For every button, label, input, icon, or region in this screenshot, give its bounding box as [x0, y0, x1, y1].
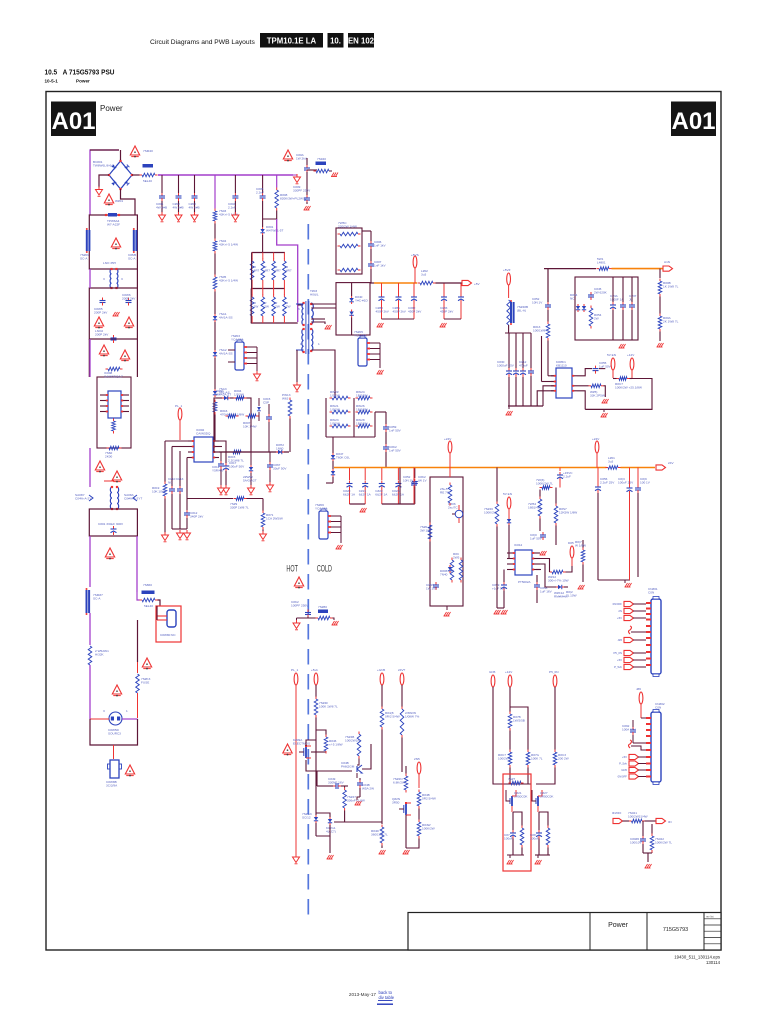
svg-text:450P 2kV: 450P 2kV [408, 309, 422, 313]
svg-text:1W/2/5B: 1W/2/5B [513, 718, 525, 722]
svg-text:100K/2W 7L: 100K/2W 7L [536, 481, 553, 485]
svg-text:100/10V: 100/10V [630, 840, 642, 844]
svg-text:3u3: 3u3 [608, 459, 613, 463]
svg-text:100uF: 100uF [504, 836, 513, 840]
svg-text:3: 3 [103, 277, 105, 281]
svg-text:6: 6 [298, 307, 300, 311]
svg-text:340P 2kV: 340P 2kV [190, 514, 204, 518]
svg-text:W#A2A-2T: W#A2A-2T [216, 392, 231, 396]
svg-text:2N5: 2N5 [414, 757, 420, 761]
svg-text:10.: 10. [330, 37, 341, 46]
svg-text:P5_0N: P5_0N [613, 651, 622, 655]
svg-text:100K/2W: 100K/2W [422, 826, 435, 830]
svg-text:4R7: 4R7 [275, 268, 281, 272]
svg-text:24V: 24V [668, 461, 674, 465]
svg-text:220/2W 1/4W: 220/2W 1/4W [338, 224, 357, 228]
svg-text:100uF: 100uF [530, 836, 539, 840]
svg-text:W 1/8W: W 1/8W [575, 543, 586, 547]
svg-text:GN5: GN5 [621, 768, 627, 772]
svg-text:470uF: 470uF [519, 363, 528, 367]
svg-text:PA8(2GM: PA8(2GM [341, 764, 355, 768]
svg-text:4R7: 4R7 [286, 268, 292, 272]
svg-text:(BL-A): (BL-A) [517, 308, 526, 312]
svg-text:NC: NC [168, 480, 173, 484]
svg-text:3W 10V: 3W 10V [420, 528, 432, 532]
svg-text:2.2uF 25V: 2.2uF 25V [600, 480, 615, 484]
svg-text:1uF 50V: 1uF 50V [599, 364, 612, 368]
svg-text:4R7: 4R7 [264, 268, 270, 272]
svg-text:200P 2kV: 200P 2kV [122, 296, 136, 300]
svg-text:+5V: +5V [617, 616, 622, 620]
svg-text:100/2W31/4W: 100/2W31/4W [628, 814, 648, 818]
svg-text:0N: 0N [668, 820, 672, 824]
svg-text:YCA 08A: YCA 08A [231, 337, 244, 341]
svg-text:SC-A: SC-A [128, 256, 136, 260]
svg-text:2W: 2W [275, 304, 280, 308]
svg-text:10.5 A 715G5793 PSU: 10.5 A 715G5793 PSU [45, 68, 115, 77]
svg-text:1B/2/5M: 1B/2/5M [356, 421, 368, 425]
svg-text:div table: div table [379, 995, 395, 1000]
svg-text:100K 7L: 100K 7L [531, 756, 543, 760]
svg-text:W#01: W#01 [115, 199, 123, 203]
svg-text:100K 1W8 7L: 100K 1W8 7L [319, 704, 338, 708]
svg-text:EN 102: EN 102 [348, 37, 375, 46]
svg-text:33uF 50V: 33uF 50V [273, 466, 287, 470]
svg-text:3R50: 3R50 [392, 800, 400, 804]
svg-text:2.2nF: 2.2nF [228, 205, 236, 209]
svg-text:HOT: HOT [286, 564, 298, 574]
svg-text:100K/2W 7L: 100K/2W 7L [655, 840, 672, 844]
svg-text:5A/G/A2T: 5A/G/A2T [243, 478, 257, 482]
svg-text:+5V#: +5V# [503, 268, 511, 272]
svg-text:1uF 16V: 1uF 16V [540, 589, 553, 593]
svg-text:+5V: +5V [617, 658, 622, 662]
svg-text:19430_511_130114.eps: 19430_511_130114.eps [674, 955, 720, 960]
svg-text:TPM10.1E LA: TPM10.1E LA [267, 37, 317, 46]
svg-text:24V?: 24V? [398, 668, 406, 672]
svg-text:2W: 2W [264, 304, 269, 308]
svg-text:1B/2/5M: 1B/2/5M [356, 407, 368, 411]
svg-text:ELECTMOS: ELECTMOS [293, 741, 310, 745]
svg-text:1CA 2W5/W: 1CA 2W5/W [266, 516, 283, 520]
svg-text:3: 3 [103, 709, 105, 713]
svg-text:7S860: 7S860 [143, 583, 152, 587]
svg-text:+5V: +5V [474, 282, 481, 286]
svg-text:2.2/1W8 7L: 2.2/1W8 7L [228, 458, 244, 462]
svg-text:1000uF 25V: 1000uF 25V [497, 363, 515, 367]
svg-text:100 1V: 100 1V [640, 480, 651, 484]
svg-text:A01: A01 [51, 108, 95, 135]
svg-text:6.8K/2W: 6.8K/2W [393, 780, 405, 784]
svg-text:4A/1A-SS: 4A/1A-SS [219, 351, 233, 355]
svg-text:W5A 2W: W5A 2W [362, 786, 374, 790]
svg-text:5V EN: 5V EN [503, 492, 512, 496]
svg-text:12K5W 1/8W: 12K5W 1/8W [559, 510, 577, 514]
svg-text:200P 2kV: 200P 2kV [94, 310, 108, 314]
svg-text:W7-A22F: W7-A22F [107, 222, 120, 226]
svg-text:PL_1: PL_1 [175, 404, 183, 408]
svg-text:4W 6#B: 4W 6#B [173, 205, 184, 209]
svg-text:+5V: +5V [622, 755, 627, 759]
svg-text:6&2F 1A: 6&2F 1A [343, 492, 356, 496]
svg-text:1: 1 [126, 709, 128, 713]
svg-text:2013-May-17: 2013-May-17 [349, 992, 377, 997]
svg-text:Y5R/4W: Y5R/4W [212, 468, 224, 472]
svg-text:5EL40: 5EL40 [143, 179, 152, 183]
svg-text:4W 6#B: 4W 6#B [156, 205, 167, 209]
svg-text:1/3/2W: 1/3/2W [330, 407, 340, 411]
svg-text:CA/W5DQ/L7: CA/W5DQ/L7 [104, 374, 123, 378]
svg-text:C5P: C5P [263, 400, 269, 404]
svg-text:43K+/-5 1/4W: 43K+/-5 1/4W [219, 278, 238, 282]
svg-text:GN5: GN5 [489, 670, 496, 674]
svg-text:+/-5 1/8W: +/-5 1/8W [329, 742, 343, 746]
svg-text:+5vb: +5vb [311, 668, 318, 672]
svg-text:10K 1/4W: 10K 1/4W [243, 424, 257, 428]
svg-text:1nF 50V: 1nF 50V [389, 428, 402, 432]
svg-text:3R50C0K: 3R50C0K [514, 794, 528, 798]
svg-text:6&2F 1A: 6&2F 1A [375, 492, 388, 496]
svg-text:Y#C-#1D: Y#C-#1D [355, 298, 368, 302]
svg-text:P_5vb: P_5vb [619, 762, 627, 766]
svg-text:+1uF 50V: +1uF 50V [492, 586, 506, 590]
svg-text:C#01 330uF 300V: C#01 330uF 300V [98, 522, 124, 526]
svg-text:10-5-1: 10-5-1 [45, 79, 59, 84]
svg-text:7SM40: 7SM40 [143, 149, 153, 153]
svg-text:LNO 35H: LNO 35H [103, 261, 116, 265]
svg-text:C#W80 NC: C#W80 NC [160, 633, 176, 637]
svg-text:C04%-A-2Y: C04%-A-2Y [75, 496, 91, 500]
svg-text:2W: 2W [286, 304, 291, 308]
svg-text:1/3/2W: 1/3/2W [330, 393, 340, 397]
svg-text:2N: 2N [618, 609, 622, 613]
svg-text:43K+/-5 1/4W: 43K+/-5 1/4W [219, 242, 238, 246]
svg-text:2.2nF: 2.2nF [256, 190, 264, 194]
svg-text:2K 1W8 7L: 2K 1W8 7L [663, 319, 679, 323]
svg-text:IC#12: IC#12 [514, 543, 523, 547]
svg-text:H/32K: H/32K [95, 652, 105, 656]
svg-text:7N40: 7N40 [440, 572, 448, 576]
svg-text:100K/2W: 100K/2W [484, 510, 497, 514]
svg-text:2sc/7C: 2sc/7C [448, 505, 458, 509]
svg-text:+5VS: +5VS [411, 253, 419, 257]
svg-text:Power: Power [76, 79, 90, 84]
svg-text:4A/1A-SS: 4A/1A-SS [219, 315, 233, 319]
svg-text:10N 1V: 10N 1V [403, 478, 414, 482]
svg-text:100K/2W +25.1/8W: 100K/2W +25.1/8W [615, 385, 642, 389]
svg-text:C0N: C0N [648, 590, 654, 594]
svg-text:1N60: 1N60 [276, 446, 284, 450]
svg-text:P5_0N: P5_0N [549, 670, 558, 674]
svg-text:rev list: rev list [706, 915, 714, 919]
svg-text:(W 1V: (W 1V [418, 478, 428, 482]
svg-text:W63: W63 [282, 396, 289, 400]
svg-text:1B/2/5M: 1B/2/5M [356, 393, 368, 397]
svg-text:3u3: 3u3 [421, 272, 426, 276]
svg-text:+12V: +12V [505, 670, 513, 674]
svg-text:+12V: +12V [627, 353, 635, 357]
svg-text:2K00: 2K00 [105, 454, 113, 458]
svg-text:4W 6#B: 4W 6#B [189, 205, 200, 209]
svg-text:1nF 1kV: 1nF 1kV [374, 263, 386, 267]
svg-text:450P 2kV: 450P 2kV [376, 309, 390, 313]
svg-text:PT50#2A: PT50#2A [518, 580, 531, 584]
svg-text:A01: A01 [671, 108, 715, 135]
svg-text:KB1110: KB1110 [556, 363, 567, 367]
svg-text:100/2W1/6: 100/2W1/6 [345, 738, 360, 742]
svg-text:SC/12: SC/12 [302, 815, 311, 819]
svg-text:1: 1 [318, 342, 320, 346]
svg-text:FUSE: FUSE [141, 680, 149, 684]
svg-text:0R2 5/4W: 0R2 5/4W [422, 796, 436, 800]
svg-text:1/2/3W: 1/2/3W [234, 392, 244, 396]
svg-text:130114: 130114 [706, 960, 721, 965]
svg-text:7S940: 7S940 [317, 157, 326, 161]
svg-text:1: 1 [300, 342, 302, 346]
svg-text:A1N: A1N [664, 260, 670, 264]
svg-text:360/1W8 7L: 360/1W8 7L [371, 832, 388, 836]
svg-text:H0&/L: H0&/L [310, 292, 319, 296]
svg-text:100PF 250V: 100PF 250V [291, 603, 309, 607]
svg-text:J#6: J#6 [617, 638, 622, 642]
svg-text:100/1W8 7L: 100/1W8 7L [533, 328, 550, 332]
svg-text:L4801: L4801 [597, 260, 606, 264]
svg-text:330PF 250V: 330PF 250V [293, 188, 311, 192]
svg-text:2W: 2W [594, 316, 599, 320]
svg-text:+24V: +24V [444, 437, 452, 441]
svg-text:100uF 50V: 100uF 50V [229, 464, 245, 468]
svg-text:Power: Power [100, 104, 123, 113]
svg-text:300+/-7% 10W: 300+/-7% 10W [548, 578, 569, 582]
svg-text:7L 10W: 7L 10W [566, 593, 577, 597]
svg-text:2W: 2W [254, 304, 259, 308]
svg-text:2W5: 2W5 [453, 555, 460, 559]
svg-text:330NF 16V: 330NF 16V [328, 780, 345, 784]
svg-text:7S#7: 7S#7 [508, 777, 516, 781]
svg-text:3R50C0K: 3R50C0K [540, 794, 554, 798]
svg-text:2.2uF: 2.2uF [563, 474, 571, 478]
svg-text:33K 2P5W: 33K 2P5W [590, 393, 605, 397]
svg-text:200 2W: 200 2W [558, 756, 569, 760]
svg-text:330P 1W8 7L: 330P 1W8 7L [230, 505, 249, 509]
svg-text:D#5: D#5 [568, 541, 574, 545]
svg-text:0N/0FF: 0N/0FF [618, 775, 628, 779]
svg-text:C0N: C0N [655, 705, 661, 709]
svg-text:C#13: C#13 [176, 477, 184, 481]
svg-text:6&2F 1A: 6&2F 1A [359, 492, 372, 496]
svg-text:RE 7C: RE 7C [440, 490, 450, 494]
svg-text:YCA 08A: YCA 08A [354, 333, 367, 337]
svg-text:1000F 1A: 1000F 1A [610, 297, 624, 301]
svg-text:100A 32V: 100A 32V [622, 727, 636, 731]
svg-text:3: 3 [121, 277, 123, 281]
svg-text:Power: Power [608, 922, 629, 929]
svg-text:T60K C6L: T60K C6L [336, 455, 350, 459]
svg-text:1/08W 7%: 1/08W 7% [405, 714, 420, 718]
svg-text:CA/W5DQ: CA/W5DQ [196, 431, 211, 435]
svg-text:100/2W: 100/2W [498, 756, 509, 760]
svg-text:7S#80: 7S#80 [318, 605, 327, 609]
svg-text:4R7: 4R7 [254, 268, 260, 272]
svg-text:1W 10V: 1W 10V [426, 586, 438, 590]
svg-text:C0#%-A-2YT: C0#%-A-2YT [124, 496, 142, 500]
svg-text:10K 10W: 10K 10W [152, 489, 165, 493]
svg-text:1W 2kV: 1W 2kV [296, 156, 308, 160]
svg-text:10N 1V: 10N 1V [532, 300, 543, 304]
svg-text:3C/2/9A: 3C/2/9A [106, 783, 118, 787]
svg-text:0N/0FF: 0N/0FF [612, 811, 622, 815]
svg-text:SC-A: SC-A [93, 596, 101, 600]
svg-text:SOURC3: SOURC3 [108, 731, 121, 735]
svg-text:COLD: COLD [317, 564, 332, 574]
svg-text:+GN5: +GN5 [377, 668, 385, 672]
svg-text:YCA 08A: YCA 08A [315, 506, 328, 510]
svg-text:Circuit Diagrams and PWB Layou: Circuit Diagrams and PWB Layouts [150, 39, 255, 46]
svg-text:0R/2 5/4W: 0R/2 5/4W [385, 714, 400, 718]
svg-text:450P 2kV: 450P 2kV [393, 309, 407, 313]
svg-text:PL_1: PL_1 [291, 668, 299, 672]
svg-text:4(AC7): 4(AC7) [326, 829, 336, 833]
svg-text:450P 2kV: 450P 2kV [440, 309, 454, 313]
svg-text:820K/3W+PL2W03: 820K/3W+PL2W03 [280, 196, 307, 200]
svg-text:16B1/4W: 16B1/4W [528, 505, 541, 509]
svg-text:1nF 50V: 1nF 50V [389, 448, 402, 452]
svg-text:P_5vb: P_5vb [614, 665, 622, 669]
svg-text:SC-A: SC-A [80, 256, 88, 260]
svg-text:+24V: +24V [592, 437, 600, 441]
svg-text:5EL40: 5EL40 [144, 604, 153, 608]
svg-text:2W 620K: 2W 620K [594, 290, 608, 294]
svg-text:470/4W+/-5 1/8W: 470/4W+/-5 1/8W [220, 412, 244, 416]
svg-text:0N/0FF: 0N/0FF [613, 602, 623, 606]
svg-text:6&2F 1A: 6&2F 1A [392, 492, 405, 496]
svg-text:100uF 25V: 100uF 25V [618, 480, 634, 484]
svg-text:NC: NC [570, 296, 575, 300]
svg-text:1uF 50V: 1uF 50V [530, 536, 543, 540]
svg-text:TW8W6L/8-6A: TW8W6L/8-6A [93, 163, 114, 167]
svg-text:1/3/2W: 1/3/2W [330, 421, 340, 425]
svg-text:J#6: J#6 [636, 687, 641, 691]
svg-text:200P 2kV: 200P 2kV [95, 332, 109, 336]
svg-text:336nF+1.8W: 336nF+1.8W [347, 798, 365, 802]
svg-text:1nF 1kV: 1nF 1kV [374, 243, 386, 247]
svg-text:W47W01-5T: W47W01-5T [266, 228, 283, 232]
svg-text:1K 1W8 7L: 1K 1W8 7L [663, 284, 679, 288]
svg-text:5V EN: 5V EN [607, 353, 616, 357]
svg-text:715G5793: 715G5793 [663, 927, 688, 933]
